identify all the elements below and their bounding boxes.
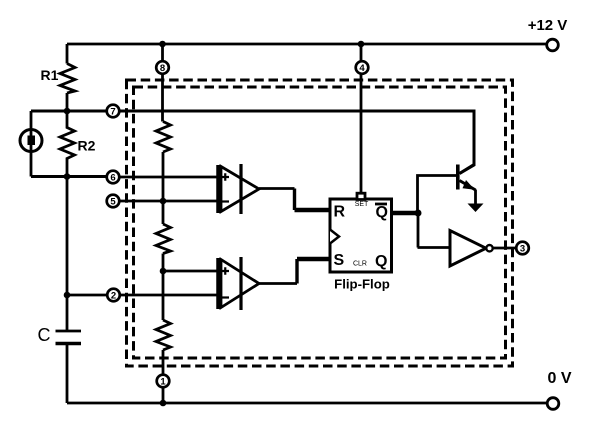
wire: divider segment 2 — [162, 254, 165, 321]
svg-text:4: 4 — [359, 63, 365, 74]
svg-text:CLR: CLR — [353, 261, 367, 268]
op-amp: comparator A (threshold) — [219, 164, 260, 214]
pin 4 — [356, 61, 369, 74]
flip-flop clock triangle — [330, 230, 339, 244]
pin 5 — [107, 195, 120, 208]
resistor R2 (with leads) — [60, 111, 75, 177]
wire: capacitor bottom lead to 0V rail — [66, 344, 69, 404]
junction: trigger node — [64, 292, 71, 299]
svg-text:Q: Q — [376, 204, 388, 221]
wire: comparator B output to flip-flop S — [259, 282, 297, 285]
wire: divider tap to comparator B + input — [163, 270, 218, 273]
junction: control-voltage tap — [160, 198, 167, 205]
op-amp: comparator B (trigger) — [219, 257, 260, 310]
pin 3 — [516, 242, 529, 255]
wire: pin 6 threshold to comparator A + input — [120, 176, 219, 179]
chip boundary: outer dashed — [127, 80, 513, 366]
wire: comparator A output to flip-flop R — [259, 187, 295, 190]
wire: discharge node to pin 7 — [31, 110, 107, 113]
pin 6 — [107, 171, 120, 184]
junction: Vcc rail to pin 4 — [358, 41, 365, 48]
svg-text:Flip-Flop: Flip-Flop — [334, 277, 390, 292]
pin label Qbar — [375, 204, 388, 221]
component: sensor circle in parallel with R2 — [20, 130, 42, 152]
wire: divider segment 1 — [162, 152, 165, 224]
junction: R2 bottom node — [64, 173, 71, 180]
svg-text:0 V: 0 V — [547, 370, 571, 387]
transistor Q1 (discharge) — [458, 165, 476, 191]
svg-text:C: C — [38, 325, 51, 345]
pin 8 — [156, 61, 169, 74]
wire: R1 bottom lead — [66, 93, 69, 111]
svg-text:R1: R1 — [41, 67, 59, 83]
svg-text:5: 5 — [110, 197, 116, 208]
wire: emitter drop — [474, 190, 477, 205]
svg-text:6: 6 — [110, 173, 115, 184]
ground: emitter ground arrow — [468, 204, 484, 213]
svg-text:7: 7 — [110, 107, 115, 118]
wire: pin 5 control to comparator A - input — [120, 200, 219, 203]
wire: pin 2 trigger to comparator B - input — [121, 294, 219, 297]
svg-text:R: R — [334, 204, 346, 221]
pin 1 — [157, 375, 170, 388]
junction: Vcc rail to pin 8 — [159, 41, 166, 48]
wire: rail to R1 top lead — [66, 44, 69, 64]
wire: +12V top rail — [67, 43, 546, 46]
flip-flop SET pin square — [357, 193, 365, 199]
wire: pin 7 discharge run to transistor collector — [120, 111, 475, 174]
wire: Qbar node down to inverter input — [418, 213, 451, 248]
terminal: 0 V — [547, 398, 559, 410]
wire: trigger node to pin 2 — [67, 294, 108, 297]
junction: lower comparator reference tap — [160, 268, 167, 275]
svg-text:2: 2 — [111, 291, 116, 302]
wire: inverter to pin 3 — [493, 247, 517, 250]
resistor: internal divider bottom — [156, 320, 171, 350]
terminal: +12 V supply — [547, 39, 559, 51]
wire: 0V bottom rail — [67, 402, 547, 405]
svg-text:+12 V: +12 V — [528, 17, 568, 34]
resistor R1 — [60, 64, 75, 94]
wire: bottom of parallel pair to pin 6 — [31, 175, 107, 178]
pin 2 — [107, 289, 120, 302]
wire: divider bottom through pin 1 to rail — [162, 350, 165, 403]
svg-text:1: 1 — [160, 377, 166, 388]
wire: left vertical down to capacitor — [66, 177, 69, 332]
junction: Qbar node — [415, 210, 422, 217]
capacitor C — [56, 331, 82, 344]
junction: pin 1 to 0V rail — [160, 400, 167, 407]
chip boundary: inner dashed — [134, 87, 506, 358]
wire: pin 8 drop into divider chain — [161, 44, 164, 122]
wire: left branch vertical (sensor in parallel with R2) — [30, 111, 33, 177]
svg-text:SET: SET — [355, 201, 369, 208]
svg-text:Q: Q — [375, 253, 387, 270]
wire: pin 4 reset drop to flip-flop — [360, 44, 363, 193]
op-amp: output inverter buffer — [450, 231, 493, 267]
pin 7 — [107, 105, 120, 118]
flip-flop U1 box — [330, 199, 392, 272]
svg-text:8: 8 — [160, 63, 165, 74]
svg-text:3: 3 — [520, 244, 525, 255]
svg-text:S: S — [334, 252, 345, 269]
resistor: internal divider top — [156, 122, 171, 153]
wire: Qbar node up to transistor base — [418, 176, 457, 214]
junction: R1/R2/pin7 node — [64, 108, 71, 115]
resistor: internal divider middle — [156, 224, 171, 254]
svg-text:R2: R2 — [78, 138, 96, 154]
wire: Qbar output — [392, 211, 419, 216]
